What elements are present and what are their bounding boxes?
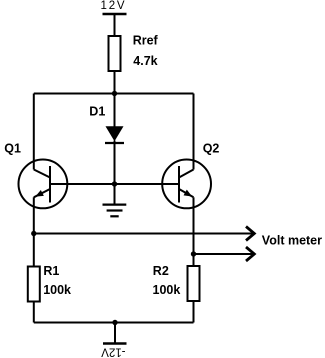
svg-text:R1: R1 xyxy=(43,264,59,278)
svg-text:R2: R2 xyxy=(153,264,169,278)
svg-text:-12V: -12V xyxy=(101,346,126,358)
svg-text:Q2: Q2 xyxy=(203,141,220,155)
svg-text:Rref: Rref xyxy=(133,34,159,48)
svg-text:Volt meter: Volt meter xyxy=(262,234,322,248)
svg-text:12V: 12V xyxy=(101,0,127,12)
svg-text:100k: 100k xyxy=(153,283,181,297)
svg-text:100k: 100k xyxy=(43,283,71,297)
svg-text:4.7k: 4.7k xyxy=(133,54,157,68)
svg-text:Q1: Q1 xyxy=(4,141,21,155)
svg-text:D1: D1 xyxy=(89,105,105,119)
